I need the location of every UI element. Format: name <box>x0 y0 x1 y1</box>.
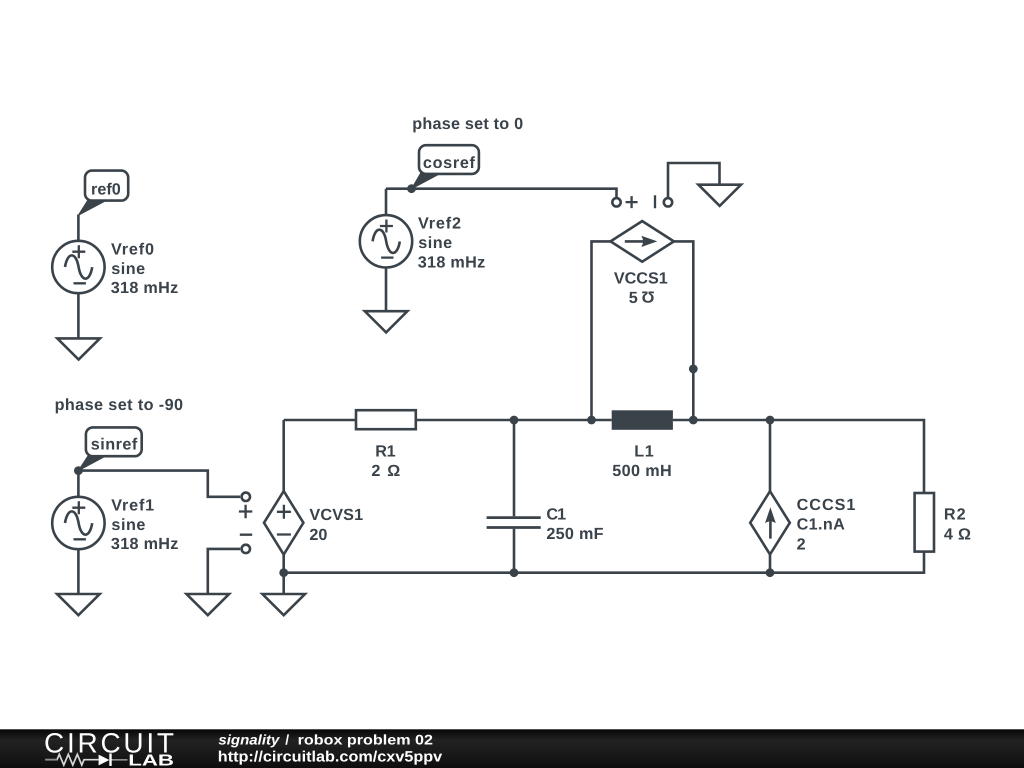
svg-text:L1: L1 <box>634 443 654 461</box>
svg-text:CCCS1: CCCS1 <box>797 496 856 514</box>
svg-text:R1: R1 <box>375 443 395 461</box>
svg-text:VCCS1: VCCS1 <box>614 270 668 288</box>
svg-text:sine: sine <box>111 260 145 278</box>
svg-text:R2: R2 <box>944 505 966 523</box>
svg-text:5: 5 <box>629 289 638 307</box>
svg-text:4 Ω: 4 Ω <box>944 525 971 543</box>
svg-text:robox problem 02: robox problem 02 <box>298 732 434 748</box>
svg-text:2: 2 <box>797 535 806 553</box>
svg-text:ref0: ref0 <box>91 180 121 198</box>
svg-text:Vref2: Vref2 <box>418 215 461 233</box>
svg-text:signality: signality <box>218 732 280 748</box>
svg-text:cosref: cosref <box>423 154 476 172</box>
svg-text:318 mHz: 318 mHz <box>418 254 486 272</box>
svg-text:VCVS1: VCVS1 <box>309 506 363 524</box>
svg-text:C1.nA: C1.nA <box>797 516 845 534</box>
svg-text:Ω: Ω <box>642 287 655 305</box>
svg-text:/: / <box>285 732 289 748</box>
svg-text:Vref1: Vref1 <box>111 496 154 514</box>
svg-text:sinref: sinref <box>91 436 138 454</box>
svg-text:20: 20 <box>309 526 327 544</box>
svg-text:250 mF: 250 mF <box>546 525 603 543</box>
svg-text:Vref0: Vref0 <box>111 240 154 258</box>
svg-text:http://circuitlab.com/cxv5ppv: http://circuitlab.com/cxv5ppv <box>218 749 443 766</box>
svg-text:phase set to 0: phase set to 0 <box>412 115 523 133</box>
svg-text:500 mH: 500 mH <box>612 462 672 480</box>
svg-text:2 Ω: 2 Ω <box>371 462 400 480</box>
svg-text:C1: C1 <box>546 505 566 523</box>
svg-text:LAB: LAB <box>128 752 174 768</box>
svg-text:sine: sine <box>418 234 452 252</box>
svg-text:318 mHz: 318 mHz <box>111 279 179 297</box>
svg-text:318 mHz: 318 mHz <box>111 535 178 553</box>
svg-text:sine: sine <box>111 516 145 534</box>
svg-text:phase set to -90: phase set to -90 <box>55 396 183 414</box>
